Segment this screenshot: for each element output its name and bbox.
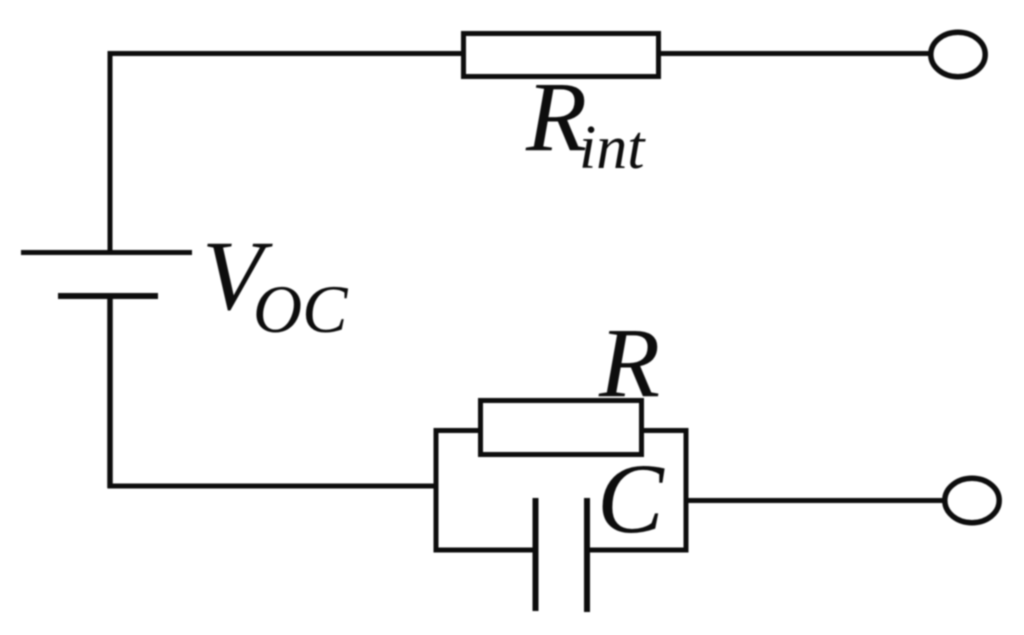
capacitor C: left plate (533, 498, 539, 611)
wire: RC block right vertical to output terminal (686, 498, 946, 503)
svg-text:int: int (579, 114, 646, 182)
wire: RC block bottom-left to capacitor left plate (434, 548, 536, 553)
label V_OC (202, 220, 348, 347)
capacitor C: right plate (584, 498, 590, 612)
terminal: negative output (945, 478, 999, 522)
wire: R_int right terminal to output terminal (661, 51, 932, 56)
wire: battery negative plate down to bottom rail (107, 296, 113, 488)
svg-text:OC: OC (253, 271, 348, 347)
resistor R (481, 401, 642, 455)
label R_int (525, 61, 646, 182)
wire: top rail from corner to R_int left terminal (108, 51, 464, 56)
wire: RC block right vertical (684, 428, 689, 553)
svg-text:R: R (525, 61, 587, 172)
svg-text:R: R (598, 307, 660, 418)
wire: RC block left vertical (434, 428, 439, 553)
wire: left vertical from top rail to battery positive plate (108, 51, 113, 251)
terminal: positive output (931, 32, 985, 76)
svg-text:C: C (597, 443, 665, 554)
wire: R right terminal to RC block right vertical (641, 428, 688, 433)
resistor R_int (464, 34, 659, 77)
wire: RC block top-left stub to R left terminal (434, 428, 483, 433)
battery V_OC: short negative plate (58, 293, 158, 299)
battery V_OC: long positive plate (21, 250, 192, 255)
wire: bottom rail from corner to RC block left side (108, 484, 439, 489)
wire: capacitor right plate to RC block bottom-right (587, 548, 689, 553)
